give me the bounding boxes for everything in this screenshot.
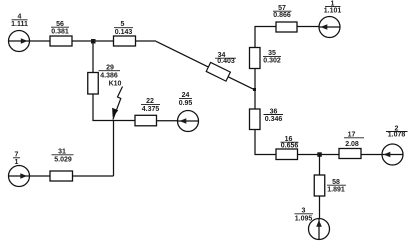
resistor R16 <box>276 149 298 160</box>
wire diagonal upper <box>156 41 208 67</box>
label 57 / 0.866 <box>273 5 292 19</box>
resistor R31 <box>50 171 73 181</box>
wire <box>72 40 114 42</box>
resistor R34 <box>206 62 230 81</box>
label 1 / 1.101 <box>324 1 342 15</box>
wire <box>361 154 382 156</box>
resistor R17 <box>339 149 361 159</box>
generator G4 <box>9 31 30 52</box>
svg-text:0.656: 0.656 <box>281 143 299 150</box>
label 16 / 0.656 <box>281 136 299 150</box>
junction node <box>91 39 96 44</box>
svg-text:2.08: 2.08 <box>345 141 359 148</box>
svg-text:1.111: 1.111 <box>11 21 28 28</box>
svg-text:0.143: 0.143 <box>115 29 133 36</box>
svg-text:0.381: 0.381 <box>51 29 69 36</box>
wire <box>157 120 178 122</box>
resistor R56 <box>50 36 72 46</box>
resistor R36 <box>250 109 261 130</box>
svg-text:K10: K10 <box>109 81 122 88</box>
generator G3 <box>309 219 330 240</box>
resistor R22 <box>135 115 157 126</box>
generator G24 <box>178 111 199 132</box>
label 24 / 0.95 <box>179 92 193 107</box>
label 29 / 4.386 <box>99 65 121 80</box>
generator G2 <box>382 144 403 165</box>
wire vertical + corner to middle bus <box>93 94 135 121</box>
generator G1 <box>319 17 340 38</box>
wire diagonal lower <box>228 77 254 90</box>
svg-text:1: 1 <box>15 159 19 166</box>
svg-text:1.891: 1.891 <box>327 186 345 193</box>
label 35 / 0.302 <box>263 50 281 64</box>
wire top right corner <box>255 27 276 48</box>
label 58 / 1.891 <box>327 179 346 193</box>
svg-text:22: 22 <box>146 98 154 105</box>
label 22 / 4.375 <box>141 98 160 113</box>
svg-text:5: 5 <box>121 21 125 28</box>
wire vertical fault bus <box>113 121 115 177</box>
lightning bolt fault <box>112 87 122 120</box>
resistor R57 <box>276 22 297 32</box>
wire bottom right corner <box>255 130 276 155</box>
wire <box>297 26 319 28</box>
wire vertical to R58 <box>319 155 321 176</box>
wire <box>30 175 51 177</box>
svg-text:0.403: 0.403 <box>217 58 235 65</box>
junction node <box>317 152 322 157</box>
wire vertical from junction <box>92 41 94 73</box>
svg-text:1.095: 1.095 <box>295 215 313 222</box>
label 34 / 0.403 <box>215 52 236 65</box>
label 3 / 1.095 <box>295 208 314 223</box>
svg-text:1.101: 1.101 <box>324 8 342 15</box>
svg-text:4.386: 4.386 <box>100 73 118 80</box>
resistor R29 <box>88 73 99 95</box>
wire <box>298 154 340 156</box>
svg-text:5.029: 5.029 <box>54 157 72 164</box>
wire vertical to G3 <box>319 196 321 219</box>
wire <box>136 40 157 42</box>
label 56 / 0.381 <box>51 21 69 36</box>
svg-text:0.866: 0.866 <box>273 12 291 19</box>
svg-text:0.95: 0.95 <box>179 100 193 107</box>
label 17 / 2.08 <box>344 132 364 149</box>
svg-text:0.302: 0.302 <box>263 58 281 65</box>
resistor R5 <box>114 36 136 46</box>
label 4 / 1.111 <box>11 14 28 28</box>
wire vertical <box>254 69 256 110</box>
wire <box>30 40 51 42</box>
resistor R35 <box>250 48 261 69</box>
label 7 / 1 <box>13 152 20 167</box>
generator G7 <box>9 166 30 187</box>
junction node <box>253 88 256 91</box>
svg-text:4.375: 4.375 <box>142 106 160 113</box>
label 2 / 1.078 <box>386 125 408 138</box>
label 31 / 5.029 <box>52 149 74 164</box>
svg-text:1.078: 1.078 <box>388 132 406 139</box>
label 5 / 0.143 <box>114 21 133 36</box>
label 36 / 0.346 <box>264 108 284 123</box>
wire <box>73 175 114 177</box>
svg-text:0.346: 0.346 <box>265 116 283 123</box>
resistor R58 <box>314 175 325 196</box>
